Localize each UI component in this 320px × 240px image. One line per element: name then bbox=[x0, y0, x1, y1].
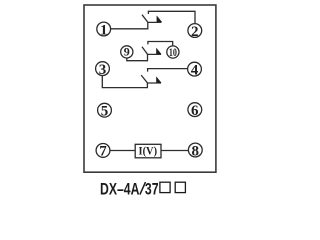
svg-text:1: 1 bbox=[100, 22, 108, 38]
svg-text:10: 10 bbox=[169, 45, 177, 59]
svg-text:4: 4 bbox=[191, 62, 199, 78]
svg-text:7: 7 bbox=[99, 144, 107, 160]
svg-text:9: 9 bbox=[124, 45, 130, 59]
svg-text:8: 8 bbox=[192, 143, 200, 159]
svg-text:I(V): I(V) bbox=[139, 146, 158, 158]
svg-text:37: 37 bbox=[145, 181, 159, 199]
svg-text:6: 6 bbox=[191, 103, 199, 119]
svg-text:5: 5 bbox=[101, 104, 109, 120]
svg-text:2: 2 bbox=[191, 24, 199, 40]
svg-text:DX–4A: DX–4A bbox=[100, 181, 140, 199]
svg-text:3: 3 bbox=[99, 62, 107, 78]
